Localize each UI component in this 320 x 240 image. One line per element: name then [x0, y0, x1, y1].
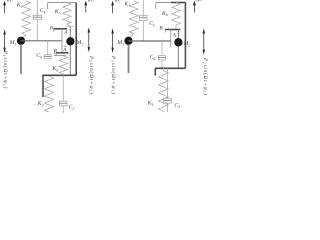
left diagram: damper C4 branch line (top)	[36, 0, 38, 17]
left diagram: damper C4 symbol	[36, 14, 38, 16]
right diagram: link line M1 to lever	[129, 40, 171, 42]
svg-text:B: B	[50, 26, 53, 32]
svg-text:C6: C6	[36, 53, 42, 59]
svg-text:C5: C5	[149, 21, 155, 27]
svg-text:K6: K6	[161, 11, 168, 17]
svg-text:M2: M2	[76, 40, 84, 46]
right diagram: lever stem (fulcrum link)	[170, 30, 172, 48]
right diagram: mass M2 node	[174, 38, 182, 46]
svg-text:K1: K1	[16, 3, 23, 9]
right diagram: damper C5 branch line (top)	[142, 0, 144, 17]
left diagram: link line M1 to lever	[21, 40, 62, 42]
svg-text:P1sin(Ωt+ψ1): P1sin(Ωt+ψ1)	[110, 55, 116, 94]
left diagram: mass M1 node	[17, 37, 25, 45]
svg-text:P2sin(Ωt+ψ2): P2sin(Ωt+ψ2)	[88, 55, 94, 94]
right diagram: motion double arrow at M1	[112, 32, 114, 50]
right diagram: frame box right edge	[184, 3, 186, 69]
left diagram: lower plate under bar	[54, 55, 66, 57]
left diagram: lever top bar B-A	[54, 28, 68, 30]
svg-text:C6: C6	[150, 55, 156, 61]
left diagram: frame box right edge	[75, 3, 77, 76]
svg-text:P2sin(Ωt+ψ2): P2sin(Ωt+ψ2)	[202, 57, 208, 95]
right diagram: mass M2 rod	[177, 30, 179, 69]
svg-text:C2: C2	[69, 104, 75, 110]
right diagram: damper C5 lower rod to link	[142, 21, 144, 42]
right diagram: coordinate arrow (top left, clipped label)	[112, 5, 114, 14]
svg-text:M1: M1	[116, 40, 124, 46]
svg-text:K2: K2	[37, 101, 44, 107]
left diagram: lever stem (fulcrum link)	[61, 29, 63, 53]
right diagram: frame bottom bar	[155, 67, 185, 69]
right diagram: damper C3 branch	[167, 68, 169, 98]
left diagram: damper C6 (from link down)	[47, 41, 49, 55]
right diagram: lever top bar B-A	[165, 29, 180, 31]
svg-text:K6: K6	[51, 66, 58, 72]
left diagram: mass M2 node	[66, 37, 74, 45]
left diagram: spring K6 (lower, inside frame)	[59, 56, 68, 74]
right diagram: coordinate arrow (top right, clipped label)	[193, 5, 195, 13]
right diagram: spring K1	[129, 1, 138, 38]
svg-text:K3: K3	[147, 101, 154, 107]
left diagram: coordinate arrow x1 (top left, clipped label)	[4, 5, 6, 14]
right diagram: frame box left edge stub	[155, 3, 157, 10]
left diagram: coordinate arrow x2 (top right, clipped label)	[85, 5, 87, 13]
svg-text:B: B	[159, 25, 163, 31]
svg-text:A: A	[172, 33, 177, 39]
left diagram: lever lower bar Bbar-Abar	[56, 52, 68, 54]
left diagram: motion double arrow at M2	[88, 31, 90, 50]
right diagram: spring K6 inside frame box	[172, 3, 180, 30]
svg-text:K5: K5	[54, 9, 61, 15]
left diagram: spring K5 inside frame box	[63, 3, 71, 27]
right diagram: spring K3 (to base)	[159, 68, 169, 112]
svg-text:P1sin(Ωt+ψ1): P1sin(Ωt+ψ1)	[2, 50, 8, 89]
left diagram: rod below M1	[20, 44, 22, 74]
left diagram: damper C4 lower rod to link	[36, 20, 38, 41]
left diagram: motion double arrow at M1	[4, 33, 6, 50]
right diagram: damper C5 symbol	[142, 15, 144, 17]
right diagram: damper C6 (from link to frame bottom)	[161, 41, 163, 56]
left diagram: spring K2 (to base)	[44, 76, 53, 112]
right diagram: frame bottom-left drop	[154, 68, 156, 75]
svg-text:A: A	[62, 47, 67, 53]
left diagram: damper C2 branch	[62, 75, 64, 101]
right diagram: motion double arrow at M2	[203, 32, 205, 52]
svg-text:M1: M1	[9, 40, 17, 46]
right diagram: mass M1 node	[124, 37, 132, 45]
left diagram: frame box left edge stub	[47, 3, 49, 10]
svg-text:M2: M2	[183, 41, 191, 47]
svg-text:A: A	[63, 30, 68, 36]
left diagram: frame bottom bar	[43, 74, 76, 76]
left diagram: spring K1	[22, 1, 31, 39]
svg-text:K1: K1	[123, 1, 130, 7]
left diagram: mass M2 rod	[69, 27, 71, 76]
svg-text:C4: C4	[40, 8, 46, 14]
right diagram: rod below M1	[128, 44, 130, 73]
left diagram: frame box top edge	[48, 2, 77, 4]
left diagram: frame bottom-left drop	[42, 75, 44, 97]
right diagram: frame box top edge	[156, 2, 186, 4]
svg-text:C3: C3	[174, 103, 180, 109]
